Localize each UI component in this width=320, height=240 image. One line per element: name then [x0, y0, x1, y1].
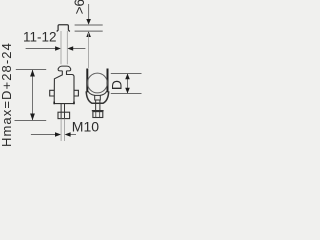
Hmax dimension: bottom extension line [15, 120, 47, 122]
front view: left tab [50, 90, 55, 96]
side view: nut facets [95, 112, 97, 118]
D arrowhead up [125, 74, 130, 80]
Hmax dimension: vertical arrow line [32, 70, 34, 120]
D dimension: top extension line [111, 73, 142, 75]
svg-text:11-12: 11-12 [23, 30, 57, 45]
flange line bottom [75, 30, 103, 32]
M10 extension lines below nut [60, 119, 62, 141]
front view: screw cap [58, 66, 71, 71]
front view: neck and body outline [54, 71, 74, 104]
>6 arrow below: tail down to strap [88, 33, 90, 68]
>6 arrowhead up onto flange bottom [86, 31, 91, 37]
M10 dimension line left with right arrowhead [31, 134, 59, 136]
svg-text:D: D [108, 80, 124, 90]
11-12 dimension line left with right arrowhead [26, 48, 59, 50]
>6 arrow above: tail [88, 4, 90, 20]
Hmax arrowhead up [30, 70, 35, 77]
projection line slot right [66, 31, 68, 64]
top view hook bracket [57, 25, 70, 32]
side view: cradle inner left [88, 91, 94, 95]
svg-text:>6: >6 [72, 0, 87, 14]
side view: left strap [86, 69, 88, 93]
projection line slot left [60, 31, 62, 64]
side view: bolt shaft [95, 100, 97, 110]
front view: nut facet lines [60, 112, 62, 118]
11-12 dimension tail right with left arrowhead [69, 48, 85, 50]
M10 dimension tail right with left arrowhead [66, 134, 76, 136]
side view: washer [92, 110, 104, 112]
side view: cradle inner right [100, 91, 106, 95]
side view: cradle outer band [86, 91, 109, 103]
front view: bolt shaft [60, 104, 62, 113]
D dimension: vertical arrow line [127, 74, 129, 94]
side view: cable circle D [88, 73, 108, 93]
flange line top [75, 24, 103, 26]
D arrowhead down [125, 88, 130, 94]
svg-text:Hmax=D+28-24: Hmax=D+28-24 [0, 42, 14, 147]
front view: nut [58, 112, 70, 118]
front view: right tab [74, 90, 78, 96]
side view: bolt head block [95, 95, 101, 100]
svg-text:M10: M10 [72, 119, 99, 135]
side view: right strap [107, 69, 109, 93]
>6 arrowhead down onto flange top [86, 19, 91, 25]
front view: bottom corner ticks [53, 102, 55, 105]
side view: nut [93, 112, 103, 118]
Hmax arrowhead down [30, 114, 35, 121]
D dimension: bottom extension line [111, 93, 142, 95]
Hmax dimension: top extension line [16, 69, 46, 71]
